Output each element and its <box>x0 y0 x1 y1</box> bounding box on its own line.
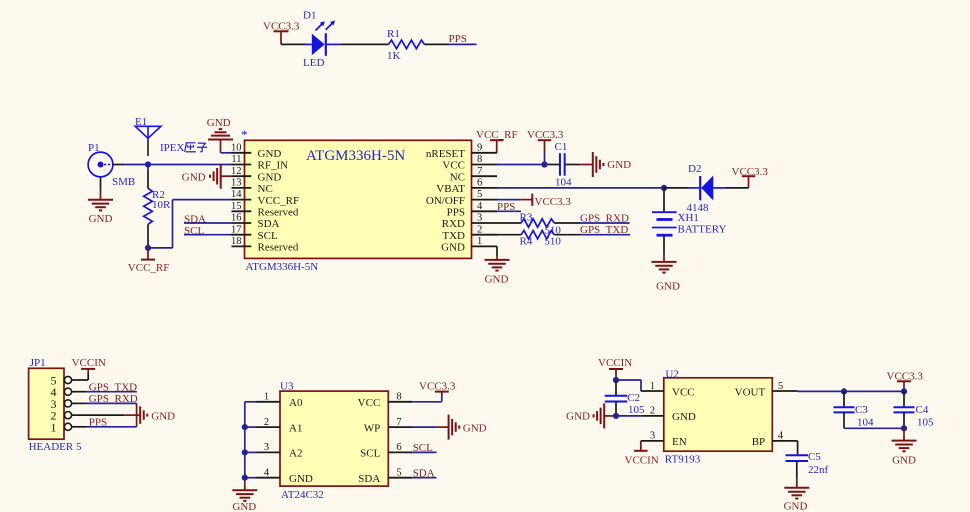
pin 8 VCC (right) <box>442 154 497 172</box>
svg-text:R3: R3 <box>520 212 533 224</box>
U2 pin 2 GND <box>641 406 696 424</box>
svg-text:SDA: SDA <box>258 218 280 230</box>
svg-text:PPS: PPS <box>89 417 107 429</box>
U2 pin 1 VCC <box>641 381 695 399</box>
svg-text:ON/OFF: ON/OFF <box>426 195 465 207</box>
net label PPS (top) <box>449 33 467 45</box>
wire P1 to antenna node to RF_IN <box>122 164 232 166</box>
pin 13 NC (left) <box>231 178 273 196</box>
svg-text:GND: GND <box>892 454 916 466</box>
power port VCC3.3 at pin8 <box>527 129 564 165</box>
svg-text:1: 1 <box>477 236 482 247</box>
svg-text:2: 2 <box>650 406 655 417</box>
U2 pin 3 EN <box>641 431 687 449</box>
net label PPS wire JP1 pin1 <box>72 417 137 429</box>
label 510 (R4) <box>544 236 561 248</box>
svg-text:SCL: SCL <box>258 230 278 242</box>
label R2 <box>152 189 165 201</box>
ground GND above pin10 (inverted earth) <box>207 117 233 153</box>
svg-text:JP1: JP1 <box>30 357 46 369</box>
svg-text:3: 3 <box>650 431 655 442</box>
svg-text:RT9193: RT9193 <box>665 454 701 466</box>
resistor R2 <box>144 166 153 248</box>
svg-text:5: 5 <box>477 189 482 200</box>
svg-text:18: 18 <box>231 236 242 247</box>
svg-text:GND: GND <box>672 411 696 423</box>
wire pin6 VBAT to battery node <box>497 187 664 189</box>
svg-text:SCL: SCL <box>360 448 380 460</box>
svg-text:22nf: 22nf <box>808 464 829 476</box>
label R4 <box>520 236 533 248</box>
svg-text:SMB: SMB <box>112 176 135 188</box>
U3 pin 4 GND <box>256 468 313 486</box>
svg-text:4: 4 <box>264 468 270 479</box>
svg-text:1K: 1K <box>387 50 401 62</box>
junction node U3 pin2 <box>242 424 248 430</box>
U3 pin 3 A2 <box>256 442 303 460</box>
svg-text:2: 2 <box>264 417 269 428</box>
svg-text:BATTERY: BATTERY <box>678 223 727 235</box>
junction node antenna <box>145 161 151 167</box>
svg-text:GPS_TXD: GPS_TXD <box>89 382 137 394</box>
svg-text:GND: GND <box>207 117 231 129</box>
svg-text:EN: EN <box>672 436 687 448</box>
svg-text:TXD: TXD <box>442 230 465 242</box>
power port VCC3.3 at U3 pin8 <box>412 380 455 401</box>
svg-text:4: 4 <box>778 431 784 442</box>
svg-text:8: 8 <box>396 392 401 403</box>
U3 pin 1 A0 <box>256 392 303 410</box>
label HEADER 5 <box>29 441 82 453</box>
capacitor C5 <box>786 441 809 479</box>
capacitor C1 <box>560 153 565 176</box>
pin 17 SCL (left) <box>231 224 278 242</box>
svg-text:GND: GND <box>258 148 282 160</box>
resistor R4 <box>497 231 580 239</box>
svg-text:VCC: VCC <box>358 397 381 409</box>
svg-text:GND: GND <box>182 172 206 184</box>
svg-text:D2: D2 <box>688 163 701 175</box>
svg-text:VCCIN: VCCIN <box>625 454 659 466</box>
svg-text:C3: C3 <box>855 404 868 416</box>
svg-text:1: 1 <box>51 420 57 434</box>
svg-text:SCL: SCL <box>413 442 433 454</box>
connector P1 SMB <box>88 152 123 177</box>
IC U3 AT24C32 body <box>280 391 388 486</box>
svg-text:GND: GND <box>607 159 631 171</box>
svg-text:BP: BP <box>752 436 765 448</box>
wire VOUT to caps <box>798 390 904 392</box>
svg-text:104: 104 <box>555 176 572 188</box>
junction node battery/diode <box>661 185 667 191</box>
JP1 pin 4 <box>51 385 72 399</box>
svg-text:VOUT: VOUT <box>735 386 766 398</box>
svg-text:C4: C4 <box>916 404 929 416</box>
svg-text:P1: P1 <box>88 142 100 154</box>
svg-text:GND: GND <box>289 473 313 485</box>
label JP1 <box>30 357 46 369</box>
net label GPS_TXD wire JP1 pin4 <box>72 382 138 394</box>
label D1 <box>303 9 316 21</box>
svg-text:Reserved: Reserved <box>258 207 299 219</box>
net label SDA wire U3 pin5 <box>412 467 436 479</box>
JP1 pin 2 <box>51 409 72 423</box>
svg-text:10: 10 <box>231 142 242 153</box>
ground GND left of C2 (sideways) <box>566 403 614 428</box>
wire pin8 to C1 <box>497 164 545 166</box>
svg-text:16: 16 <box>231 213 242 224</box>
ground GND at pin12 (sideways) <box>182 164 232 189</box>
svg-text:LED: LED <box>303 57 324 69</box>
svg-text:C1: C1 <box>555 141 568 153</box>
diode D1 LED <box>305 21 342 56</box>
svg-text:105: 105 <box>628 404 645 416</box>
svg-text:GND: GND <box>784 501 808 512</box>
net label PPS wire at pin4 <box>497 201 521 213</box>
connector JP1 HEADER 5 <box>29 368 64 439</box>
ground GND under U3 bus <box>232 478 257 512</box>
label 10R <box>152 199 171 211</box>
svg-text:6: 6 <box>396 442 401 453</box>
ground GND under C5 <box>784 479 810 512</box>
power port VCCIN at JP1 pin5 <box>72 357 106 380</box>
pin 2 TXD (right) <box>442 224 497 242</box>
power port VCC3.3 (LED supply) <box>263 21 300 45</box>
pin 7 NC (right) <box>450 166 497 184</box>
ground GND at JP1 pin2 (sideways) <box>72 406 176 424</box>
svg-text:7: 7 <box>396 417 401 428</box>
label C2 <box>627 392 640 404</box>
svg-text:17: 17 <box>231 224 242 235</box>
wire VCCIN node to U2 pin1 <box>616 380 641 391</box>
junction node pin8/C1 <box>541 161 547 167</box>
junction node C3 top <box>841 388 847 394</box>
pin 9 nRESET (right) <box>426 142 497 160</box>
svg-text:R1: R1 <box>387 28 400 40</box>
svg-text:GND: GND <box>89 213 113 225</box>
IC ATGM336H-5N body <box>245 140 472 258</box>
svg-text:nRESET: nRESET <box>426 148 465 160</box>
label R1 <box>387 28 400 40</box>
svg-text:VBAT: VBAT <box>436 183 465 195</box>
U2 pin 5 VOUT <box>735 381 798 399</box>
svg-text:ATGM336H-5N: ATGM336H-5N <box>246 261 319 273</box>
svg-text:WP: WP <box>364 422 381 434</box>
svg-text:15: 15 <box>231 201 242 212</box>
pin 16 SDA (left) <box>231 213 280 231</box>
label 105 (C4) <box>917 417 934 429</box>
JP1 pin 5 <box>51 374 72 388</box>
svg-text:A2: A2 <box>289 448 302 460</box>
svg-text:C2: C2 <box>627 392 640 404</box>
label U3 <box>280 380 294 392</box>
wire junction to C1 <box>548 164 560 166</box>
resistor R3 <box>497 219 580 227</box>
svg-text:SDA: SDA <box>358 473 380 485</box>
label RT9193 <box>665 454 701 466</box>
svg-text:5: 5 <box>778 381 783 392</box>
label E1 <box>135 116 147 128</box>
antenna E1 <box>135 126 161 156</box>
pin 15 Reserved (left) <box>231 201 299 219</box>
svg-text:GND: GND <box>566 410 590 422</box>
svg-text:3: 3 <box>477 213 482 224</box>
ground GND under C4 <box>892 428 917 466</box>
svg-text:2: 2 <box>477 224 482 235</box>
pin 5 ON/OFF (right) <box>426 189 497 207</box>
label 4148 <box>687 202 710 214</box>
junction node VCCIN/C2 <box>613 377 619 383</box>
wire C2 node to U2 pin2 <box>616 415 641 417</box>
power port VCCIN at U2 pin3 EN <box>625 441 659 467</box>
svg-text:C5: C5 <box>808 451 821 463</box>
svg-text:1: 1 <box>650 381 655 392</box>
wire VCC3.3 to LED anode <box>281 43 305 45</box>
capacitor C4 <box>894 391 915 428</box>
svg-text:10R: 10R <box>152 199 171 211</box>
label 22nf <box>808 464 829 476</box>
svg-text:GND: GND <box>485 273 509 285</box>
wire R1 to PPS <box>424 43 476 45</box>
diode D2 4148 <box>664 176 749 201</box>
svg-text:VCC3.3: VCC3.3 <box>732 166 769 178</box>
svg-text:510: 510 <box>544 236 561 248</box>
net label GPS_RXD wire JP1 pin3 <box>72 393 138 405</box>
svg-text:VCC3.3: VCC3.3 <box>527 129 564 141</box>
label 104 <box>555 176 572 188</box>
label 105 (C2) <box>628 404 645 416</box>
svg-text:HEADER 5: HEADER 5 <box>29 441 82 453</box>
label BATTERY <box>678 223 727 235</box>
svg-text:ATGM336H-5N: ATGM336H-5N <box>306 148 405 164</box>
label C1 <box>555 141 568 153</box>
svg-text:VCC3.3: VCC3.3 <box>535 196 572 208</box>
pin 6 VBAT (right) <box>436 178 497 196</box>
net label GPS_RXD <box>580 212 630 224</box>
wire JP1 ground tie vertical <box>136 403 138 426</box>
label R3 <box>520 212 533 224</box>
ground GND at U3 pin7 (sideways) <box>412 415 486 440</box>
U3 pin 5 SDA <box>358 468 412 486</box>
wire C3 bottom to C4 bottom <box>844 427 904 429</box>
junction node C4 bottom <box>901 425 907 431</box>
IC title ATGM336H-5N <box>306 148 405 164</box>
svg-text:PPS: PPS <box>449 33 467 45</box>
svg-text:D1: D1 <box>303 9 316 21</box>
svg-text:GND: GND <box>258 171 282 183</box>
label D2 <box>688 163 701 175</box>
svg-text:GND: GND <box>463 422 487 434</box>
label 510 (R3) <box>544 225 561 237</box>
svg-text:GND: GND <box>656 280 680 292</box>
label P1 <box>88 142 100 154</box>
svg-text:IPEX: IPEX <box>160 142 185 154</box>
ground GND right of C1 (sideways) <box>565 152 631 177</box>
label C5 <box>808 451 821 463</box>
svg-text:VCC: VCC <box>442 160 465 172</box>
label C3 <box>855 404 868 416</box>
pin 14 VCC_RF (left) <box>231 189 299 207</box>
ground GND at pin1 <box>485 246 510 285</box>
svg-text:104: 104 <box>857 417 874 429</box>
junction node C2/GND/U2 pin2 <box>613 413 619 419</box>
pin 10 GND (left) <box>231 142 281 160</box>
svg-text:SDA: SDA <box>413 467 435 479</box>
asterisk marker <box>241 127 248 142</box>
svg-text:VCC: VCC <box>672 386 695 398</box>
svg-text:VCC3.3: VCC3.3 <box>887 370 924 382</box>
battery XH1 <box>652 188 677 255</box>
svg-text:11: 11 <box>231 154 241 165</box>
pin 11 RF_IN (left) <box>231 154 288 172</box>
svg-text:A0: A0 <box>289 397 303 409</box>
svg-text:7: 7 <box>477 166 482 177</box>
svg-text:NC: NC <box>258 183 273 195</box>
svg-text:E1: E1 <box>135 116 147 128</box>
label XH1 <box>678 212 699 224</box>
svg-text:8: 8 <box>477 154 482 165</box>
junction node C4 top <box>901 388 907 394</box>
svg-text:A1: A1 <box>289 422 302 434</box>
svg-text:GND: GND <box>441 242 465 254</box>
U3 pin 8 VCC <box>358 392 413 410</box>
U2 pin 4 BP <box>752 431 798 449</box>
junction node U3 pin4 <box>242 475 248 481</box>
svg-text:14: 14 <box>231 189 242 200</box>
U3 pin 7 WP <box>364 417 413 435</box>
pin 4 PPS (right) <box>447 201 497 219</box>
label SMB <box>112 176 135 188</box>
pin 12 GND (left) <box>231 166 281 184</box>
ground GND under battery <box>652 255 680 293</box>
power port VCC_RF at pin9 <box>476 129 518 153</box>
net label GPS_TXD <box>580 224 630 236</box>
pin 3 RXD (right) <box>442 213 497 231</box>
net label SDA wire to pin16 <box>184 213 232 225</box>
wire U3 address bus to ground <box>245 402 257 478</box>
svg-text:AT24C32: AT24C32 <box>281 489 324 501</box>
svg-text:VCCIN: VCCIN <box>72 357 106 369</box>
power port VCC3.3 at VOUT <box>887 370 924 391</box>
svg-text:12: 12 <box>231 166 242 177</box>
svg-text:U3: U3 <box>280 380 294 392</box>
svg-text:*: * <box>241 127 248 142</box>
power port VCCIN above C2 <box>598 357 632 380</box>
svg-text:VCCIN: VCCIN <box>598 357 632 369</box>
svg-text:13: 13 <box>231 178 242 189</box>
junction node VCC_RF bottom <box>145 245 151 251</box>
label 104 (C3) <box>857 417 874 429</box>
svg-text:4: 4 <box>477 201 483 212</box>
svg-text:6: 6 <box>477 178 482 189</box>
label LED <box>303 57 324 69</box>
pin 18 Reserved (left) <box>231 236 299 254</box>
svg-text:GPS_RXD: GPS_RXD <box>89 393 138 405</box>
U3 pin 2 A1 <box>256 417 303 435</box>
power port VCC3.3 at D2 <box>732 166 769 188</box>
svg-text:105: 105 <box>917 417 934 429</box>
capacitor C3 <box>834 391 855 428</box>
svg-text:PPS: PPS <box>447 207 465 219</box>
IC U2 RT9193 body <box>664 378 773 451</box>
svg-text:NC: NC <box>450 171 465 183</box>
JP1 pin 3 <box>51 397 72 411</box>
label 1K <box>387 50 401 62</box>
svg-text:RF_IN: RF_IN <box>258 160 289 172</box>
label C4 <box>916 404 929 416</box>
svg-text:XH1: XH1 <box>678 212 699 224</box>
svg-text:5: 5 <box>396 468 401 479</box>
svg-text:U2: U2 <box>665 369 678 381</box>
svg-text:3: 3 <box>264 442 269 453</box>
net label SCL wire U3 pin6 <box>412 442 436 454</box>
net label SCL wire to pin17 <box>184 225 232 237</box>
pin 1 GND (right) <box>441 236 497 254</box>
label U2 <box>665 369 678 381</box>
junction node U3 pin3 <box>242 449 248 455</box>
ground GND under P1 <box>88 177 113 225</box>
power port VCC3.3 at pin5 ON/OFF <box>497 194 571 208</box>
svg-text:9: 9 <box>477 142 482 153</box>
IC subtitle ATGM336H-5N <box>246 261 319 273</box>
label IPEX socket <box>160 142 207 154</box>
wire R2 node to pin14 VCC_RF <box>148 200 232 248</box>
svg-text:Reserved: Reserved <box>258 242 299 254</box>
label AT24C32 <box>281 489 324 501</box>
svg-text:R4: R4 <box>520 236 533 248</box>
svg-text:RXD: RXD <box>442 218 465 230</box>
capacitor C2 <box>605 381 628 414</box>
svg-text:GND: GND <box>151 410 175 422</box>
svg-text:VCC3.3: VCC3.3 <box>419 380 456 392</box>
svg-text:GND: GND <box>232 501 256 512</box>
wire LED cathode to R1 <box>341 43 389 45</box>
resistor R1 <box>389 40 425 49</box>
svg-text:1: 1 <box>264 392 269 403</box>
svg-text:VCC_RF: VCC_RF <box>258 195 300 207</box>
U3 pin 6 SCL <box>360 442 412 460</box>
JP1 pin 1 <box>51 420 72 434</box>
svg-text:VCC_RF: VCC_RF <box>128 262 170 274</box>
power port VCC_RF (bottom) <box>128 248 170 274</box>
